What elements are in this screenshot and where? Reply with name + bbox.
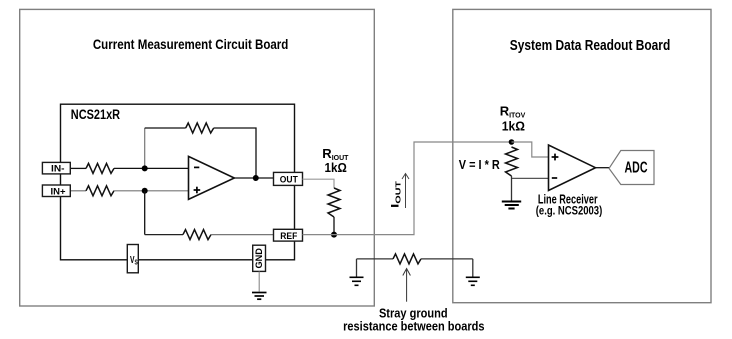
op-amp U2 line receiver triangle [549,145,596,191]
ground under GND pin [258,271,260,291]
wire REF resistor to REF pin [211,234,274,236]
arrow IOUT up [402,174,409,209]
ground right of stray resistor [466,277,480,285]
stray ground resistance: left ground stub [356,259,358,277]
wire IN- resistor to op-amp minus input [114,167,189,169]
svg-text:resistance between boards: resistance between boards [343,319,484,334]
svg-text:IN+: IN+ [51,186,66,197]
svg-text:Current Measurement Circuit Bo: Current Measurement Circuit Board [93,37,289,52]
wire IN+ to resistor [70,190,86,192]
junction dot RITOV top [509,139,515,145]
junction dot minus node [142,165,148,171]
op-amp package NCS21xR boundary [61,104,295,260]
pin IN+ [42,185,70,197]
junction dot plus node [142,188,148,194]
resistor RIOUT vertical [328,188,340,217]
wire op-amp output to OUT pin [234,177,273,179]
resistor R on REF line [183,230,211,240]
junction dot REF node [331,232,337,238]
svg-text:System Data Readout Board: System Data Readout Board [510,38,671,54]
wire IN+ resistor to op-amp plus input [114,190,189,192]
wire plus node down to REF line [144,191,146,235]
ground below RITOV [502,202,521,209]
line receiver plus label [552,154,559,161]
ADC block pentagon [609,151,654,185]
svg-text:REF: REF [280,231,297,242]
wire IN- to resistor [70,167,86,169]
pin REF [274,229,303,241]
junction dot output node [253,175,259,181]
pin IN- [42,162,70,174]
wire REF node to right board [303,142,512,235]
wire REF line left segment [145,234,183,236]
resistor RITOV vertical [506,147,518,176]
svg-text:NCS21xR: NCS21xR [71,107,120,122]
resistor feedback (top) [186,123,214,133]
op-amp plus label [194,187,201,194]
svg-text:OUT: OUT [280,175,298,186]
right board: System Data Readout Board [453,9,711,302]
svg-text:1kΩ: 1kΩ [325,161,347,175]
svg-text:GND: GND [254,248,264,269]
pin GND [253,245,266,271]
wire line receiver output to ADC [596,167,610,169]
wire stray line right [421,258,473,260]
op-amp U1 triangle [189,156,235,199]
resistor R on IN- line [86,163,114,173]
pin Vs [127,245,138,273]
svg-text:V = I * R: V = I * R [459,158,500,172]
arrow pointing at stray resistor [403,269,411,302]
wire feedback loop left vertical [144,128,146,168]
wire line receiver minus input to resistor bottom [512,177,549,179]
wire feedback loop top [145,127,186,129]
resistor R on IN+ line [86,186,114,196]
wire dot to line receiver plus input [512,142,549,157]
resistor stray ground [393,254,421,264]
wire feedback right vertical [214,128,256,178]
pin OUT [274,172,303,185]
svg-text:ADC: ADC [625,160,648,177]
wire resistor bottom to ground [511,176,513,201]
left board: Current Measurement Circuit Board [20,9,375,306]
ground left of stray resistor [350,277,364,285]
wire RIOUT to REF node [333,217,335,235]
wire stray line [357,258,394,260]
svg-text:IN-: IN- [51,164,65,175]
line receiver minus label [552,177,557,179]
op-amp minus label [194,166,199,168]
svg-text:(e.g. NCS2003): (e.g. NCS2003) [536,203,603,217]
right ground stub [472,259,474,277]
wire OUT pin to RIOUT resistor [303,179,335,188]
svg-text:1kΩ: 1kΩ [502,119,525,134]
